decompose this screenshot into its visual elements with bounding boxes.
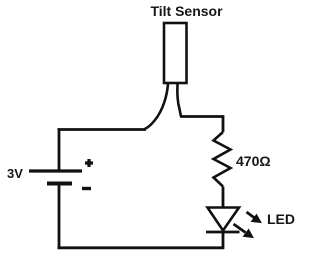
tilt sensor right lead <box>177 84 181 117</box>
wire left vertical (battery bottom) <box>58 186 61 250</box>
battery BT1 positive plate <box>29 169 82 172</box>
svg-text:Tilt Sensor: Tilt Sensor <box>150 3 223 19</box>
svg-text:3V: 3V <box>7 166 23 181</box>
label - <box>82 187 91 190</box>
LED D1 triangle <box>208 208 240 231</box>
battery BT1 negative plate <box>47 182 72 186</box>
svg-text:LED: LED <box>267 211 295 227</box>
wire left vertical (battery top) <box>58 128 61 170</box>
wire top-left horizontal <box>58 128 147 131</box>
wire LED to bottom <box>222 232 225 249</box>
wire right top horizontal <box>181 115 223 118</box>
tilt sensor left lead <box>144 84 168 129</box>
wire resistor to LED <box>222 187 225 209</box>
resistor R1 <box>214 132 231 187</box>
svg-text:470Ω: 470Ω <box>236 153 271 169</box>
label + <box>85 159 93 167</box>
LED D1 cathode bar <box>206 231 240 234</box>
LED light arrow lower <box>234 224 254 238</box>
LED light arrow upper <box>247 212 262 223</box>
wire bottom <box>58 246 225 249</box>
wire right vertical to resistor <box>222 115 225 132</box>
tilt sensor S1 body <box>164 23 187 83</box>
